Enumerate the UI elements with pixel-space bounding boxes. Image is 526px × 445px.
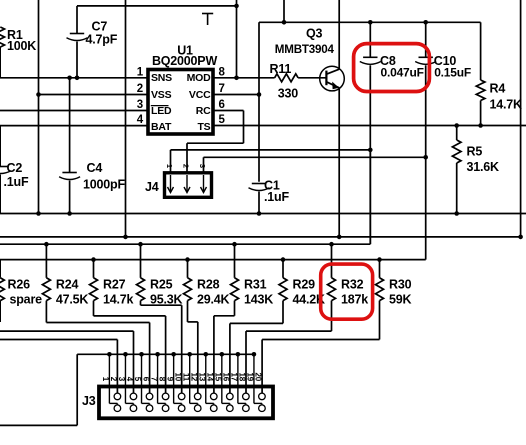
- node junction left vertical on ground line: [36, 211, 41, 216]
- svg-text:TS: TS: [197, 121, 210, 133]
- wire C7 top lead: [76, 6, 78, 34]
- node junction R4 bottom on TS line: [478, 123, 483, 128]
- wire R26 bottom lead at edge: [0, 301, 1, 322]
- svg-text:R30: R30: [389, 278, 412, 292]
- wire bus C (C10/J4-3 net): [0, 259, 426, 261]
- wire J3 ground bus: [77, 353, 254, 355]
- wire R24 bottom to J3: [45, 301, 47, 323]
- wire J3 pin 1: [107, 352, 112, 357]
- node junction C10 lead / J4-3 line: [423, 155, 428, 160]
- svg-text:R31: R31: [244, 278, 267, 292]
- svg-text:3: 3: [117, 377, 126, 382]
- transistor Q3 MMBT3904: [320, 66, 345, 91]
- svg-text:MOD: MOD: [187, 72, 212, 84]
- svg-text:16: 16: [222, 373, 231, 382]
- wire R29 bottom to J3: [282, 301, 284, 324]
- wire LED pin 3 net: [0, 110, 148, 112]
- wire J3 pin 19: [252, 352, 257, 357]
- wire VCC rail horizontal: [259, 21, 481, 23]
- svg-text:C7: C7: [92, 20, 108, 34]
- svg-text:R11: R11: [270, 62, 292, 76]
- wire SNS pin 1 net: [0, 77, 148, 79]
- svg-text:31.6K: 31.6K: [467, 160, 500, 174]
- node junction R5 top on TS line: [454, 123, 459, 128]
- wire R31 bottom to J3: [234, 301, 236, 316]
- wire J3 pin 7: [155, 352, 160, 357]
- svg-text:SNS: SNS: [151, 72, 172, 84]
- svg-text:9: 9: [165, 377, 174, 382]
- wire J4 pin 3 net to C10: [204, 156, 426, 158]
- svg-text:spare: spare: [10, 293, 43, 307]
- svg-text:100K: 100K: [7, 39, 36, 53]
- svg-text:8: 8: [219, 67, 226, 79]
- svg-text:VCC: VCC: [189, 89, 211, 101]
- wire bus B (C8/J4-1 net): [0, 243, 370, 245]
- wire VCC vertical / C1 top: [258, 22, 260, 182]
- wire J3 pin 15: [220, 352, 225, 357]
- svg-text:R4: R4: [490, 82, 506, 96]
- wire C10 top lead: [425, 22, 427, 57]
- capacitor C7: [70, 33, 84, 35]
- svg-text:47.5K: 47.5K: [56, 293, 89, 307]
- capacitor C10: [419, 56, 433, 58]
- highlight ring around C8: [354, 44, 430, 92]
- svg-text:11: 11: [181, 373, 190, 382]
- resistor R30: [379, 260, 381, 278]
- resistor R26: [0, 260, 1, 278]
- svg-text:LED: LED: [151, 105, 172, 117]
- node junction VCC rail: [282, 20, 287, 25]
- wire left net to J3 pin 2: [0, 339, 117, 341]
- svg-text:4: 4: [125, 377, 134, 382]
- capacitor C2: [0, 166, 8, 168]
- wire J3 pin 5: [139, 352, 144, 357]
- resistor R24: [45, 244, 47, 278]
- wire C7 top to MOD node, horizontal: [77, 5, 237, 7]
- resistor R29: [282, 260, 284, 278]
- svg-text:J3: J3: [82, 394, 96, 408]
- wire C2 top lead at edge: [0, 126, 1, 167]
- svg-text:Q3: Q3: [306, 27, 323, 41]
- wire J3 pin 9: [171, 352, 176, 357]
- wire C8 top lead: [369, 22, 371, 57]
- wire R27 bottom to J3: [93, 301, 95, 316]
- wire J3 pin 17: [236, 352, 241, 357]
- node junction C8 lead / J4-1 line: [368, 148, 373, 153]
- svg-text:.1uF: .1uF: [4, 175, 29, 189]
- J3 pin circles top row: [114, 393, 121, 400]
- node junction C10 on VCC rail: [423, 20, 428, 25]
- wire R32 bottom to J3: [331, 301, 333, 332]
- wire J3 pin 11: [187, 352, 192, 357]
- svg-text:20: 20: [254, 373, 263, 382]
- svg-text:C2: C2: [7, 161, 23, 175]
- wire J3 pin 3: [123, 352, 128, 357]
- svg-text:18: 18: [238, 373, 247, 382]
- svg-text:14: 14: [205, 373, 214, 382]
- resistor R27: [93, 260, 95, 278]
- node junction VCC pin: [257, 92, 262, 97]
- svg-text:4.7pF: 4.7pF: [86, 33, 118, 47]
- svg-text:VSS: VSS: [151, 89, 172, 101]
- capacitor C1: [252, 183, 266, 185]
- svg-text:3: 3: [137, 99, 143, 111]
- svg-text:J4: J4: [145, 180, 159, 194]
- svg-text:3: 3: [198, 164, 207, 168]
- svg-text:14.7K: 14.7K: [490, 97, 523, 111]
- wire ground bus A: [0, 236, 521, 238]
- svg-text:330: 330: [278, 86, 299, 100]
- svg-text:4: 4: [137, 114, 144, 126]
- node junction mid vertical on bus A: [123, 235, 128, 240]
- J4 pin arrows: [170, 175, 172, 192]
- capacitor C8: [363, 56, 377, 58]
- svg-text:R27: R27: [103, 278, 126, 292]
- wire left net to J3 pin 4: [0, 330, 134, 332]
- wire R4 top lead: [480, 22, 482, 80]
- wire MOD vertical: [236, 0, 238, 78]
- resistor R32: [331, 244, 333, 278]
- node junction R5 bottom on ground line: [454, 211, 459, 216]
- node junction VSS: [36, 92, 41, 97]
- wire J4 pin 1 net to C8: [171, 149, 371, 151]
- svg-text:10: 10: [173, 373, 182, 382]
- resistor R5: [452, 140, 461, 163]
- resistor R4: [476, 80, 485, 101]
- wire Q3 collector vertical: [338, 0, 340, 69]
- node junction C8 on VCC rail: [368, 20, 373, 25]
- svg-text:R25: R25: [150, 278, 173, 292]
- resistor R31: [234, 244, 236, 278]
- wire VSS/ground vertical from top edge: [38, 0, 40, 214]
- svg-text:2: 2: [109, 377, 118, 382]
- svg-text:13: 13: [197, 373, 206, 382]
- connector J3 body: [99, 387, 273, 419]
- svg-text:1: 1: [101, 377, 110, 382]
- node junction Q3 emitter on ground bus: [337, 235, 342, 240]
- wire right-edge vertical: [520, 0, 522, 237]
- wire R11 to Q3 base: [298, 77, 326, 79]
- wire C4 top lead: [69, 78, 71, 173]
- wire ground line full width: [0, 213, 526, 215]
- wire R5 top lead: [456, 126, 458, 141]
- svg-text:R29: R29: [293, 278, 316, 292]
- svg-text:5: 5: [219, 114, 226, 126]
- svg-text:1: 1: [137, 67, 144, 79]
- svg-text:BAT: BAT: [151, 121, 172, 133]
- node junction right vertical to bus: [518, 235, 523, 240]
- node junction MOD pin line: [234, 76, 239, 81]
- svg-text:1000pF: 1000pF: [83, 178, 125, 192]
- wire BAT pin 4 net: [0, 125, 148, 127]
- svg-text:R24: R24: [56, 278, 79, 292]
- svg-text:RC: RC: [196, 105, 211, 117]
- svg-text:17: 17: [230, 373, 239, 382]
- wire MOD pin to R11: [213, 77, 275, 79]
- capacitor C4: [62, 172, 76, 174]
- svg-text:6: 6: [219, 99, 225, 111]
- wire J3 pin 13: [203, 352, 208, 357]
- node junction C4 top on SNS line: [67, 76, 72, 81]
- node junction C7 bottom on SNS line: [75, 76, 80, 81]
- svg-text:2: 2: [137, 83, 143, 95]
- resistor R1: [0, 27, 5, 47]
- node junction C7-line / MOD vertical: [234, 4, 239, 9]
- svg-text:R5: R5: [467, 144, 483, 158]
- svg-text:59K: 59K: [389, 293, 412, 307]
- node junction C4 bottom on ground line: [67, 211, 72, 216]
- wire VSS pin 2 net: [39, 94, 149, 96]
- svg-text:7: 7: [219, 83, 225, 95]
- svg-text:R26: R26: [8, 278, 31, 292]
- svg-text:29.4K: 29.4K: [197, 293, 230, 307]
- svg-text:BQ2000PW: BQ2000PW: [152, 54, 217, 68]
- svg-text:2: 2: [181, 164, 190, 168]
- J3 pin circles bottom row: [114, 405, 121, 412]
- overline for LED: [151, 105, 169, 107]
- op-amp U1 BQ2000PW IC body: [148, 70, 213, 135]
- node T terminal symbol: [202, 13, 213, 15]
- svg-text:1: 1: [165, 164, 174, 168]
- wire TS pin 5 net: [213, 125, 526, 127]
- resistor R11: [275, 74, 299, 82]
- svg-text:0.047uF: 0.047uF: [381, 65, 424, 79]
- wire Q3 emitter vertical to ground bus: [338, 88, 340, 237]
- wire VCC rail drop from top edge: [283, 0, 285, 22]
- svg-text:143K: 143K: [244, 293, 273, 307]
- wire R1 bottom lead at edge: [0, 47, 1, 78]
- highlight ring around R32: [321, 264, 373, 319]
- wire ground vertical mid-left from top edge: [125, 0, 127, 237]
- svg-text:C4: C4: [87, 161, 103, 175]
- wire VCC pin 7: [213, 94, 259, 96]
- svg-text:187k: 187k: [341, 293, 368, 307]
- J3 pin numbers: [101, 373, 263, 382]
- svg-text:15: 15: [214, 373, 223, 382]
- svg-text:0.15uF: 0.15uF: [434, 65, 471, 79]
- svg-text:14.7k: 14.7k: [103, 293, 134, 307]
- svg-text:MMBT3904: MMBT3904: [275, 43, 335, 56]
- svg-text:R28: R28: [197, 278, 220, 292]
- svg-text:R32: R32: [341, 278, 364, 292]
- svg-text:8: 8: [157, 377, 166, 382]
- wire RC pin 6 to J4 pin 2: [213, 110, 244, 112]
- wire R25 bottom to J3: [140, 301, 142, 306]
- resistor R25: [140, 244, 142, 278]
- connector J4 body: [165, 173, 212, 198]
- resistor R28: [187, 260, 189, 278]
- svg-text:.1uF: .1uF: [264, 190, 289, 204]
- node junction C1 bottom on ground line: [257, 211, 262, 216]
- wire R30 bottom to J3: [379, 301, 381, 340]
- svg-text:7: 7: [149, 377, 158, 382]
- svg-text:12: 12: [189, 373, 198, 382]
- svg-text:5: 5: [133, 377, 142, 382]
- wire R28 bottom to J3: [187, 301, 189, 322]
